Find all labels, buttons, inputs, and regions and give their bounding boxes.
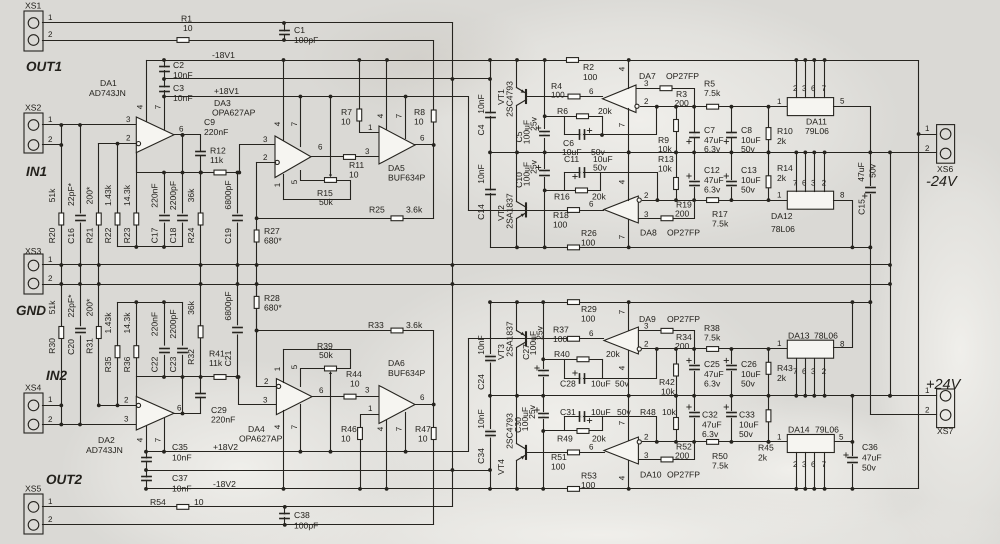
resistor R52 (661, 442, 692, 462)
resistor R29 in rail (568, 300, 597, 324)
capacitor C22 column (162, 303, 166, 379)
svg-text:10nF: 10nF (172, 453, 192, 463)
svg-text:4: 4 (618, 475, 627, 480)
capacitor C5 (514, 116, 549, 154)
capacitor C20 (66, 294, 85, 355)
svg-text:1: 1 (925, 124, 930, 133)
svg-text:C2: C2 (173, 60, 184, 70)
wire DA3 pin2 (257, 153, 276, 163)
svg-text:3: 3 (802, 84, 807, 93)
capacitor C27 (521, 325, 548, 397)
svg-text:7: 7 (618, 309, 627, 314)
svg-text:R41: R41 (209, 349, 225, 359)
svg-text:R31: R31 (85, 338, 95, 354)
svg-text:2: 2 (644, 340, 649, 349)
svg-text:VT4: VT4 (496, 459, 506, 475)
svg-text:R14: R14 (777, 163, 793, 173)
resistor R21 column (97, 144, 101, 408)
capacitor C11 (564, 154, 613, 179)
svg-text:47uF: 47uF (702, 420, 722, 430)
svg-text:R30: R30 (47, 338, 57, 354)
svg-text:C32: C32 (702, 410, 718, 420)
svg-text:R53: R53 (581, 471, 597, 481)
wire mid ground top (162, 77, 492, 81)
resistor R35 column (117, 303, 119, 406)
svg-text:50v: 50v (741, 379, 756, 389)
svg-text:10uF: 10uF (741, 175, 761, 185)
svg-text:100pF: 100pF (294, 35, 318, 45)
resistor R16 (554, 188, 607, 202)
op-amp DA10 OP27FP (604, 437, 700, 480)
svg-text:OUT1: OUT1 (26, 59, 62, 74)
wire DA7 pin2 node row (641, 97, 788, 109)
svg-text:8: 8 (840, 191, 845, 200)
capacitor C10 column (544, 153, 546, 169)
capacitor C38 (280, 505, 318, 531)
wire R41 node to DA4 pin3 (237, 375, 277, 404)
DA14 bottom pins (793, 453, 827, 491)
resistor R22 (103, 184, 120, 243)
svg-text:25v: 25v (529, 159, 539, 174)
svg-text:R1: R1 (181, 14, 192, 24)
resistor R45 (758, 396, 774, 463)
svg-text:22pF*: 22pF* (66, 294, 76, 318)
svg-text:4: 4 (273, 424, 282, 429)
svg-text:10: 10 (350, 379, 360, 389)
wire R25 feedback (255, 216, 434, 220)
svg-text:1: 1 (48, 13, 53, 22)
svg-text:51k: 51k (47, 300, 57, 315)
svg-text:3.6k: 3.6k (406, 205, 423, 215)
svg-text:10k: 10k (658, 164, 673, 174)
svg-text:R17: R17 (712, 209, 728, 219)
svg-text:R2: R2 (583, 62, 594, 72)
resistor R40 (554, 349, 621, 362)
svg-text:C29: C29 (211, 405, 227, 415)
svg-text:1: 1 (48, 497, 53, 506)
svg-text:XS1: XS1 (25, 1, 41, 11)
svg-text:11k: 11k (209, 358, 223, 368)
wire VT3 base row (469, 338, 527, 340)
wire VT3 base to R37 to DA9 output (527, 329, 604, 339)
capacitor C14 (476, 153, 495, 248)
DA10 pin7 column (618, 396, 629, 441)
capacitor C21 (223, 291, 242, 366)
svg-text:4: 4 (136, 437, 145, 442)
svg-text:DA8: DA8 (640, 228, 657, 238)
svg-text:5: 5 (290, 364, 299, 369)
svg-text:OP27FP: OP27FP (667, 314, 700, 324)
wire DA11 pin5 to C15 column (834, 107, 873, 186)
wire DA4 output to R44 (313, 386, 379, 397)
svg-text:2: 2 (644, 97, 649, 106)
wire R40 C28 block (544, 349, 657, 379)
svg-text:2: 2 (263, 153, 268, 162)
wire GND1 (43, 264, 891, 266)
capacitor C4 column (488, 58, 492, 154)
svg-text:5: 5 (290, 179, 299, 184)
svg-text:3: 3 (644, 451, 649, 460)
capacitor C2 (160, 58, 193, 80)
wire IN2 to DA2 pin3 (43, 415, 137, 425)
svg-text:4: 4 (376, 113, 385, 118)
DA13 bottom pins (793, 359, 827, 398)
svg-text:-18V1: -18V1 (212, 50, 235, 60)
transistor VT3 2SA1837 (496, 303, 527, 398)
svg-text:2: 2 (48, 30, 53, 39)
svg-text:100pF: 100pF (294, 521, 318, 531)
svg-text:R50: R50 (712, 451, 728, 461)
svg-text:R51: R51 (551, 452, 567, 462)
capacitor C22 (150, 312, 170, 373)
svg-text:GND: GND (16, 303, 46, 318)
capacitor C27 column (541, 300, 545, 368)
resistor R46 (341, 424, 362, 444)
svg-text:6: 6 (589, 329, 594, 338)
svg-text:10: 10 (341, 117, 351, 127)
DA1 pin7 column with C2 C3 (154, 61, 165, 130)
svg-text:6: 6 (319, 386, 324, 395)
capacitor C24 (476, 335, 495, 390)
buffer DA6 BUF634P (379, 358, 426, 424)
svg-text:2: 2 (48, 135, 53, 144)
wire R46 to DA6 pin1 (358, 404, 378, 491)
capacitor C16 (66, 182, 85, 244)
wire -24V right vertical (918, 61, 920, 489)
svg-text:2: 2 (793, 84, 798, 93)
svg-text:1: 1 (777, 191, 782, 200)
svg-text:7: 7 (793, 179, 798, 188)
svg-text:200: 200 (675, 451, 690, 461)
resistor R4 (551, 81, 580, 100)
svg-text:6.3v: 6.3v (704, 379, 721, 389)
resistor R21 (85, 186, 102, 243)
DA2 pin4 column with C35 C37 (136, 427, 147, 489)
svg-text:3: 3 (811, 179, 816, 188)
svg-text:2k: 2k (777, 373, 787, 383)
resistor R51 (551, 450, 580, 472)
svg-text:R8: R8 (414, 107, 425, 117)
DA3 pin5 stub (290, 171, 325, 185)
svg-text:DA1: DA1 (100, 78, 117, 88)
svg-text:C35: C35 (172, 442, 188, 452)
wire -18V1 rail (147, 50, 919, 61)
wire +24V rail (491, 394, 937, 398)
svg-text:R7: R7 (341, 107, 352, 117)
svg-text:DA11: DA11 (806, 117, 827, 127)
op-amp DA7 OP27FP (603, 71, 700, 113)
svg-text:C37: C37 (172, 473, 188, 483)
svg-text:C26: C26 (741, 359, 757, 369)
wire R39 feedback loop (284, 350, 351, 369)
resistor R42 (659, 349, 678, 398)
svg-text:R49: R49 (557, 434, 573, 444)
svg-text:50k: 50k (319, 350, 334, 360)
svg-text:3: 3 (126, 115, 131, 124)
svg-text:7.5k: 7.5k (712, 219, 729, 229)
svg-text:47uF: 47uF (862, 453, 882, 463)
svg-text:R13: R13 (658, 154, 674, 164)
svg-text:50v: 50v (862, 463, 877, 473)
svg-text:DA5: DA5 (388, 163, 405, 173)
svg-text:79L06: 79L06 (805, 126, 829, 136)
svg-text:2SC4793: 2SC4793 (505, 81, 515, 117)
resistor R24 column (199, 171, 203, 286)
svg-text:100: 100 (581, 480, 596, 490)
wire DA7 pin3 R3 (637, 79, 695, 107)
resistor R31 (85, 298, 102, 354)
capacitor C31 (560, 407, 632, 423)
label IN1 (26, 164, 47, 179)
svg-text:6: 6 (811, 84, 816, 93)
svg-text:R48: R48 (640, 407, 656, 417)
DA8 pin4 column (618, 151, 631, 201)
DA4 pin7 column (290, 405, 302, 454)
svg-text:3: 3 (644, 322, 649, 331)
op-amp DA2 AD743JN (86, 397, 174, 456)
svg-text:R40: R40 (554, 349, 570, 359)
svg-text:1: 1 (48, 395, 53, 404)
svg-text:R23: R23 (122, 227, 132, 243)
svg-text:6: 6 (420, 134, 425, 143)
svg-text:680*: 680* (264, 303, 282, 313)
svg-text:100: 100 (581, 314, 596, 324)
svg-text:200*: 200* (85, 186, 95, 204)
capacitor C33 (724, 396, 758, 442)
svg-text:BUF634P: BUF634P (388, 173, 426, 183)
svg-text:BUF634P: BUF634P (388, 368, 426, 378)
wire DA4 pin2 (257, 377, 277, 387)
resistor R14 (766, 151, 793, 201)
svg-text:+18V1: +18V1 (214, 86, 239, 96)
svg-text:6: 6 (177, 404, 182, 413)
svg-text:100: 100 (551, 462, 566, 472)
wire R26 row (491, 246, 873, 250)
wire VT1 base to R4 to DA7 output (527, 87, 603, 97)
svg-text:R43: R43 (777, 363, 793, 373)
resistor R20 column (59, 125, 63, 427)
svg-text:1: 1 (273, 182, 282, 187)
wire DA14 pin5 (835, 440, 855, 444)
DA10 pin4 column (618, 461, 631, 491)
svg-text:C16: C16 (66, 228, 76, 244)
svg-text:3: 3 (811, 367, 816, 376)
svg-text:36k: 36k (186, 188, 196, 203)
label IN2 (46, 368, 68, 383)
transistor VT1 2SC4793 (496, 58, 527, 154)
connector XS3 (GND) (24, 246, 53, 294)
svg-text:R6: R6 (557, 106, 568, 116)
resistor R17 (707, 198, 729, 229)
wire DA8 pin2 node row (643, 191, 788, 202)
svg-text:2: 2 (124, 396, 129, 405)
svg-text:XS6: XS6 (937, 164, 953, 174)
svg-text:2k: 2k (777, 173, 787, 183)
capacitor C16 column (78, 125, 82, 427)
svg-text:10uF: 10uF (591, 379, 611, 389)
wire XS4 pin1 stub (43, 405, 62, 407)
capacitor C34 (476, 409, 495, 464)
svg-text:XS5: XS5 (25, 484, 41, 494)
resistor R53 in rail (568, 471, 597, 492)
bracket wire R22 R23 C17 C18 (118, 245, 183, 249)
svg-text:3: 3 (644, 210, 649, 219)
wire DA8 pin3 R19 (639, 201, 695, 220)
svg-text:XS2: XS2 (25, 103, 41, 113)
DA3 pin7 column (290, 95, 302, 147)
svg-text:10uF: 10uF (739, 420, 759, 430)
svg-text:R45: R45 (758, 443, 774, 453)
svg-text:1: 1 (777, 339, 782, 348)
svg-text:7: 7 (618, 234, 627, 239)
wire OUT1 pin1 to ground spine (43, 22, 453, 24)
svg-text:-24V: -24V (926, 174, 958, 190)
wire R15 feedback loop (284, 181, 351, 200)
op-amp DA8 OP27FP (604, 196, 700, 238)
resistor R20 (47, 188, 64, 244)
wire R7 to DA5 pin1 (357, 58, 378, 132)
svg-text:DA6: DA6 (388, 358, 405, 368)
svg-text:R18: R18 (553, 210, 569, 220)
resistor R23 (122, 184, 139, 243)
svg-text:R47: R47 (415, 424, 431, 434)
svg-text:47uF: 47uF (704, 369, 724, 379)
svg-text:R32: R32 (186, 349, 196, 365)
svg-text:DA12: DA12 (771, 211, 793, 221)
capacitor C29 (196, 377, 235, 425)
svg-text:22pF*: 22pF* (66, 182, 76, 206)
svg-text:C17: C17 (150, 227, 160, 243)
svg-text:R46: R46 (341, 424, 357, 434)
wire VT4 base to R51 to DA10 output (527, 443, 605, 453)
svg-text:R22: R22 (103, 227, 113, 243)
svg-text:DA13: DA13 (788, 331, 810, 341)
svg-text:6: 6 (179, 125, 184, 134)
svg-text:R35: R35 (103, 356, 113, 372)
label OUT1 (26, 59, 62, 74)
svg-text:78L06: 78L06 (814, 331, 838, 341)
DA11 top pins (793, 58, 827, 97)
transistor VT4 2SC4793 (496, 396, 527, 491)
svg-text:R26: R26 (581, 228, 597, 238)
resistor R22 column (117, 144, 119, 247)
wire R12 node to DA3 pin3 (237, 135, 274, 174)
capacitor C18 (168, 181, 187, 243)
wire DA4 pin2 to R33 node (256, 331, 258, 387)
svg-text:47uF: 47uF (704, 175, 724, 185)
svg-text:200: 200 (675, 209, 690, 219)
capacitor C12 (687, 153, 724, 201)
capacitor C37 (142, 473, 192, 494)
svg-text:20k: 20k (592, 192, 607, 202)
capacitor C36 column (852, 396, 854, 456)
svg-text:DA4: DA4 (248, 424, 265, 434)
svg-text:C20: C20 (66, 339, 76, 355)
svg-text:2200pF: 2200pF (168, 181, 178, 210)
svg-text:R21: R21 (85, 227, 95, 243)
DA9 pin7 column (618, 303, 629, 331)
wire R41 row (137, 376, 239, 378)
wire DA9 pin3 R34 (639, 322, 695, 349)
svg-text:DA14: DA14 (788, 425, 810, 435)
DA4 pin4 column (273, 411, 285, 491)
wire DA12 pin8 down (834, 201, 853, 248)
wire XS2 pin2 stub (43, 143, 64, 147)
wire GND mid rail (491, 152, 937, 154)
wire GND2 (43, 284, 891, 286)
svg-text:C1: C1 (294, 25, 305, 35)
svg-text:14.3k: 14.3k (122, 312, 132, 334)
wire mid ground bottom (144, 468, 490, 472)
resistor R19 (661, 200, 692, 221)
resistor R3 (660, 86, 689, 108)
svg-text:25v: 25v (535, 325, 545, 340)
wire DA5 output (415, 134, 434, 145)
trimmer R39 (317, 341, 337, 454)
svg-text:2: 2 (48, 274, 53, 283)
svg-text:10: 10 (418, 434, 428, 444)
regulator DA13 78L06 (777, 331, 845, 359)
capacitor C21 column (236, 285, 240, 379)
DA1 pin4 rail column (136, 61, 147, 122)
capacitor C30 (513, 404, 548, 490)
wire -18V2 rail (147, 479, 919, 489)
DA12 top pins (793, 151, 827, 192)
svg-text:R37: R37 (553, 325, 569, 335)
svg-text:6: 6 (420, 393, 425, 402)
resistor R43 (766, 349, 793, 398)
svg-text:R20: R20 (47, 227, 57, 243)
capacitor C26 (724, 349, 760, 398)
svg-text:10nF: 10nF (173, 93, 193, 103)
resistor R36 column (136, 303, 138, 397)
wire OUT2 pin2 (43, 524, 434, 526)
capacitor C35 (142, 442, 192, 463)
resistor R30 (47, 300, 64, 354)
node DA1 out (179, 125, 184, 137)
resistor R11 (344, 155, 365, 180)
resistor R25 (369, 205, 423, 221)
svg-text:10: 10 (414, 117, 424, 127)
capacitor C23 (168, 309, 187, 372)
svg-text:C22: C22 (150, 356, 160, 372)
svg-text:C7: C7 (704, 125, 715, 135)
capacitor C30 column (543, 396, 545, 412)
svg-text:1: 1 (368, 404, 373, 413)
transistor VT2 2SA1837 (496, 153, 527, 248)
svg-text:C11: C11 (564, 154, 579, 164)
svg-text:3: 3 (263, 135, 268, 144)
capacitor C25 (687, 349, 724, 398)
svg-text:C14: C14 (476, 204, 486, 220)
svg-text:10: 10 (183, 23, 193, 33)
svg-text:7.5k: 7.5k (712, 461, 729, 471)
svg-text:1: 1 (273, 366, 282, 371)
DA5 pin4 column (376, 58, 389, 129)
svg-text:3: 3 (365, 147, 370, 156)
label -24V (926, 174, 958, 190)
DA9 pin4 column (618, 351, 631, 398)
svg-text:XS4: XS4 (25, 383, 41, 393)
svg-text:R28: R28 (264, 293, 280, 303)
svg-text:7: 7 (395, 426, 404, 431)
svg-text:10uF: 10uF (741, 369, 761, 379)
capacitor C36 (844, 442, 882, 491)
resistor R18 (553, 208, 580, 230)
connector XS6 (-24V) (925, 124, 955, 174)
resistor R28 column (256, 285, 258, 331)
resistor R32 column (199, 285, 203, 379)
